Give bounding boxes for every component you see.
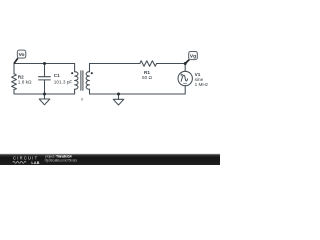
V1 plus mark [181, 74, 183, 76]
wire R2 bottom lead [13, 89, 15, 94]
node flag Vo stem [14, 58, 18, 63]
ground left stem [44, 94, 46, 99]
svg-text:LAB: LAB [31, 161, 39, 165]
wire bottom-left net [14, 93, 75, 95]
transformer primary top stub [74, 64, 76, 72]
transformer secondary polarity dot [91, 72, 93, 74]
V1 minus mark [183, 82, 186, 84]
junction dot C1 bottom / ground [43, 93, 46, 96]
svg-text:Vo: Vo [19, 52, 25, 58]
voltage source V1 circle [178, 71, 192, 85]
wire V1 top stub [184, 64, 186, 72]
node flag Vg box [189, 51, 198, 59]
svg-text:C1: C1 [54, 73, 60, 78]
transformer secondary top stub [89, 64, 91, 72]
svg-text:http://circuitlab.com/c/75ma2v: http://circuitlab.com/c/75ma2v [45, 158, 78, 162]
ground left triangle [39, 99, 50, 105]
wire R2 left branch vertical [13, 64, 15, 75]
svg-text:101.3 pF: 101.3 pF [54, 79, 73, 84]
ground right triangle [113, 99, 124, 105]
footer bar [0, 154, 220, 165]
svg-text:1 MHz: 1 MHz [195, 82, 209, 87]
junction dot V1 top [184, 62, 187, 65]
capacitor C1 plates [39, 77, 51, 80]
svg-text:Vg: Vg [190, 54, 196, 60]
svg-text:tr: tr [81, 98, 84, 102]
capacitor C1 top lead [44, 64, 46, 77]
transformer primary bottom stub [74, 89, 76, 94]
wire top-right net (secondary to R1) [90, 63, 141, 65]
node flag Vo box [17, 50, 26, 58]
node flag Vg stem [185, 60, 189, 64]
V1 sine glyph [181, 75, 187, 81]
transformer secondary bottom stub [89, 89, 91, 94]
capacitor C1 bottom lead [44, 80, 46, 94]
transformer primary winding [75, 72, 78, 90]
svg-text:1.8 kΩ: 1.8 kΩ [18, 79, 32, 84]
resistor R1 [140, 61, 157, 67]
footer logo wave [13, 161, 26, 163]
transformer secondary winding [86, 72, 89, 90]
junction dot C1 top [43, 62, 46, 65]
resistor R2 [12, 74, 17, 90]
svg-text:50 Ω: 50 Ω [142, 75, 153, 80]
wire R1 to V1 top [156, 63, 185, 65]
transformer core lines [81, 71, 83, 91]
wire V1 bottom stub [184, 86, 186, 94]
wire bottom-right net [90, 93, 186, 95]
junction dot right ground [117, 93, 120, 96]
ground right stem [118, 94, 120, 99]
transformer primary polarity dot [71, 72, 73, 74]
wire top-left (node Vo net) [14, 63, 75, 65]
